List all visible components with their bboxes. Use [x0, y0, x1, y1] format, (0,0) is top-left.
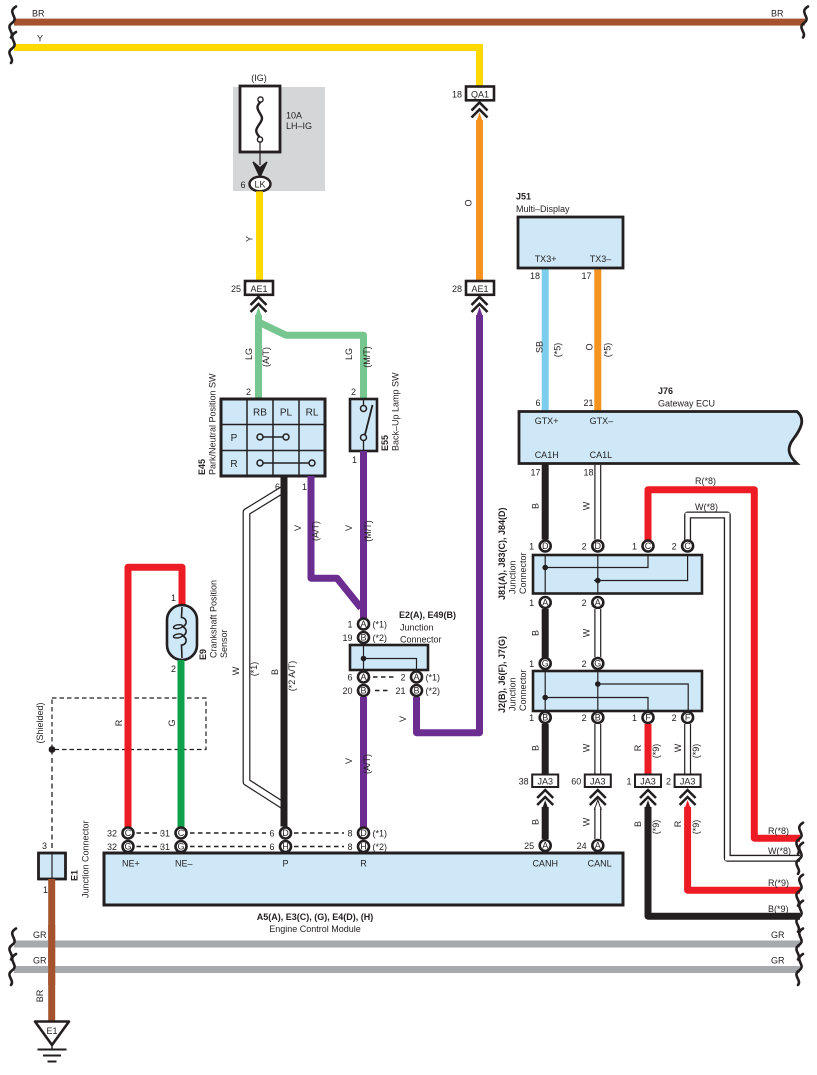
svg-text:LH–IG: LH–IG: [286, 121, 312, 131]
svg-text:BR: BR: [32, 9, 45, 19]
svg-text:Connector: Connector: [518, 552, 528, 594]
svg-text:Engine Control Module: Engine Control Module: [269, 924, 361, 934]
svg-text:(*9): (*9): [651, 820, 661, 835]
svg-text:JA3: JA3: [537, 777, 553, 787]
fuse 10A LH-IG box: [240, 86, 280, 152]
svg-text:(*2): (*2): [373, 842, 388, 852]
svg-text:W: W: [231, 666, 241, 675]
svg-text:RL: RL: [306, 408, 319, 419]
svg-text:O: O: [585, 343, 595, 350]
svg-text:E45: E45: [197, 459, 207, 475]
wire W CA1L to J81: [594, 465, 601, 540]
svg-text:J81(A), J83(C), J84(D): J81(A), J83(C), J84(D): [497, 507, 507, 600]
svg-text:W: W: [582, 743, 592, 752]
svg-text:V: V: [293, 525, 303, 531]
ground E1 symbol: [35, 1022, 69, 1046]
svg-text:R: R: [673, 820, 683, 827]
switch E55 Back-Up Lamp SW: [350, 399, 377, 451]
svg-text:2: 2: [400, 673, 405, 683]
svg-text:Junction Connector: Junction Connector: [81, 820, 91, 898]
svg-text:1: 1: [43, 885, 48, 895]
connector LK oval: [250, 177, 271, 192]
svg-text:1: 1: [347, 620, 352, 630]
svg-text:(*5): (*5): [603, 343, 613, 358]
chevron arrow into AE1-28: [476, 307, 483, 317]
svg-text:1: 1: [626, 777, 631, 787]
svg-text:C: C: [178, 828, 185, 838]
svg-text:LG: LG: [244, 348, 254, 360]
dashed shield drain wire to E1: [51, 750, 53, 854]
wire SB J51 to J76: [542, 270, 549, 411]
chevron arrow below JA3-38: [542, 800, 549, 810]
svg-text:32: 32: [107, 842, 117, 852]
svg-text:(*2): (*2): [373, 633, 388, 643]
svg-text:6: 6: [269, 829, 274, 839]
svg-text:A: A: [595, 841, 601, 851]
wire GR rail 1: [14, 941, 800, 948]
junction connector J2 circles top: [540, 658, 551, 669]
svg-text:(*1): (*1): [373, 829, 388, 839]
switch E45 Park/Neutral Position SW table: [221, 399, 325, 476]
svg-text:E55: E55: [380, 435, 390, 451]
svg-text:A: A: [542, 598, 548, 608]
ECM pin circle CANL 24A: [592, 840, 603, 851]
wire W J2-B2 to JA3-60: [594, 724, 601, 775]
wire O QA1 to AE1-28: [476, 120, 483, 281]
svg-text:R: R: [633, 744, 643, 751]
svg-text:R: R: [360, 859, 367, 869]
svg-text:Park/Neutral Position SW: Park/Neutral Position SW: [208, 373, 218, 475]
svg-text:2: 2: [582, 713, 587, 723]
svg-text:J2(B), J6(F), J7(G): J2(B), J6(F), J7(G): [497, 636, 507, 713]
svg-text:(A/T): (A/T): [311, 521, 321, 541]
svg-text:Connector: Connector: [400, 635, 442, 645]
wire R(*8) from J81 C1 to right edge: [648, 490, 800, 839]
svg-text:2: 2: [246, 387, 251, 397]
chevron arrow below JA3-2: [684, 800, 691, 810]
svg-text:3: 3: [42, 841, 47, 851]
break squiggle GR1 right: [796, 929, 803, 960]
wire GR rail 2: [14, 966, 800, 973]
shield junction dot: [49, 746, 56, 753]
svg-text:AE1: AE1: [471, 284, 488, 294]
chevron arrow below JA3-1: [645, 800, 652, 810]
svg-text:JA3: JA3: [680, 777, 696, 787]
svg-text:25: 25: [231, 284, 241, 294]
connector JA3-38: [532, 775, 558, 788]
svg-text:P: P: [282, 859, 288, 869]
junction connector J2 box: [533, 671, 702, 711]
wire W J2-F2 to JA3-2: [684, 724, 691, 775]
svg-text:D: D: [282, 828, 289, 838]
sensor E9 Crankshaft Position Sensor: [167, 605, 197, 660]
svg-text:1: 1: [302, 482, 307, 492]
svg-text:18: 18: [530, 271, 540, 281]
svg-text:RB: RB: [253, 408, 267, 419]
svg-text:24: 24: [577, 841, 587, 851]
svg-text:6: 6: [347, 673, 352, 683]
svg-text:Sensor: Sensor: [219, 629, 229, 658]
svg-text:C: C: [125, 828, 132, 838]
wire Y rail: [14, 44, 483, 51]
svg-text:PL: PL: [280, 408, 293, 419]
svg-text:F: F: [645, 713, 651, 723]
svg-text:1: 1: [171, 593, 176, 603]
svg-text:Back–Up Lamp SW: Back–Up Lamp SW: [391, 372, 401, 451]
svg-text:38: 38: [519, 777, 529, 787]
break squiggle GR1 left: [9, 929, 16, 960]
svg-text:Crankshaft Position: Crankshaft Position: [209, 580, 219, 658]
svg-text:W: W: [673, 743, 683, 752]
svg-text:2: 2: [666, 777, 671, 787]
svg-text:V: V: [398, 716, 408, 722]
wire B JA3-38 to ECM 25A: [542, 807, 549, 839]
wire B J2-B1 to JA3-38: [542, 724, 549, 775]
svg-text:B: B: [633, 821, 643, 827]
wire fuse to LK: [259, 142, 261, 165]
svg-text:B: B: [542, 713, 548, 723]
svg-text:19: 19: [342, 633, 352, 643]
svg-text:B: B: [531, 745, 541, 751]
svg-text:E1: E1: [70, 870, 80, 881]
wire BR rail (top): [14, 19, 805, 26]
ECM A5(A),E3(C),(G),E4(D),(H) Engine Control Module box: [104, 853, 623, 905]
wire R from ECM NE+ up to E9: [128, 567, 182, 826]
svg-text:JA3: JA3: [590, 777, 606, 787]
wire W(*1) outlined parallel run: [247, 489, 285, 806]
svg-text:R: R: [114, 719, 124, 726]
svg-text:Gateway ECU: Gateway ECU: [658, 399, 715, 409]
svg-text:20: 20: [342, 686, 352, 696]
wire R J2-F1 to JA3-1: [645, 724, 652, 775]
connector AE1-25 box: [245, 281, 273, 295]
svg-text:(*1): (*1): [426, 673, 441, 683]
svg-text:(A/T): (A/T): [261, 347, 271, 367]
svg-text:B: B: [360, 633, 366, 643]
svg-text:A: A: [360, 672, 366, 682]
svg-text:E1: E1: [46, 1026, 57, 1036]
svg-text:B: B: [531, 630, 541, 636]
svg-text:Junction: Junction: [400, 623, 434, 633]
svg-text:6: 6: [240, 180, 245, 190]
wire W(*8) from J81 C2 to right edge: [688, 515, 800, 858]
wire LG branch to E55: [259, 322, 364, 399]
wire B CA1H to J81: [542, 464, 549, 540]
svg-text:LK: LK: [254, 180, 265, 190]
break squiggle R(*9): [796, 875, 803, 906]
wire V below E2 to ECM pin R: [360, 697, 367, 827]
junction connector J81 circles top: [540, 541, 551, 552]
svg-text:18: 18: [583, 468, 593, 478]
svg-text:8: 8: [347, 829, 352, 839]
svg-text:R(*8): R(*8): [695, 476, 716, 486]
svg-text:1: 1: [529, 659, 534, 669]
svg-text:C: C: [684, 541, 691, 551]
svg-text:J76: J76: [658, 386, 673, 396]
arrowhead into LK: [254, 163, 267, 177]
svg-text:B: B: [360, 686, 366, 696]
svg-text:10A: 10A: [286, 111, 302, 121]
svg-text:BR: BR: [771, 9, 784, 19]
svg-text:BR: BR: [35, 989, 45, 1002]
svg-text:28: 28: [452, 284, 462, 294]
wire V from E55 pin1: [360, 451, 367, 618]
svg-text:21: 21: [583, 398, 593, 408]
svg-text:E2(A), E49(B): E2(A), E49(B): [399, 610, 456, 620]
wire BR from E1 to ground: [48, 879, 55, 1022]
svg-text:17: 17: [581, 271, 591, 281]
ECM pin circles P: [280, 828, 291, 839]
svg-text:D: D: [542, 541, 549, 551]
svg-text:G: G: [124, 842, 131, 852]
break squiggle GR2 left: [9, 954, 16, 985]
svg-text:CA1H: CA1H: [535, 450, 559, 460]
svg-text:B: B: [531, 503, 541, 509]
wire G from E9 to ECM NE-: [178, 660, 185, 827]
wire B from E45 pin6 to ECM: [281, 476, 288, 827]
ECM pin circles NE-: [178, 820, 185, 827]
svg-text:B: B: [270, 669, 280, 675]
ECM pin circles R: [360, 820, 367, 827]
svg-text:(M/T): (M/T): [362, 346, 372, 368]
dashed links between ECM pin circles: [137, 832, 162, 834]
svg-text:Connector: Connector: [518, 669, 528, 711]
svg-text:R: R: [230, 459, 237, 470]
svg-text:A: A: [542, 841, 548, 851]
svg-text:G: G: [542, 659, 549, 669]
svg-text:E9: E9: [198, 649, 208, 660]
svg-text:31: 31: [160, 842, 170, 852]
svg-text:(*2 A/T): (*2 A/T): [287, 661, 297, 692]
break squiggle BR right: [801, 7, 808, 38]
svg-text:AE1: AE1: [250, 284, 267, 294]
svg-text:17: 17: [530, 468, 540, 478]
svg-text:G: G: [167, 719, 177, 726]
ECM pin circle CANH 25A: [540, 840, 551, 851]
svg-text:2: 2: [171, 664, 176, 674]
svg-text:H: H: [360, 842, 367, 852]
svg-text:LG: LG: [344, 348, 354, 360]
wire Y drop to QA1: [476, 44, 483, 86]
svg-text:CA1L: CA1L: [590, 450, 613, 460]
svg-text:A: A: [413, 672, 419, 682]
fuse block background (IG): [233, 87, 325, 191]
svg-text:21: 21: [395, 686, 405, 696]
break squiggle B(*9): [796, 901, 803, 932]
svg-text:2: 2: [672, 542, 677, 552]
wire BR crossing over GR rails: [48, 925, 55, 985]
svg-text:60: 60: [571, 777, 581, 787]
svg-text:8: 8: [347, 842, 352, 852]
svg-text:GTX–: GTX–: [590, 416, 614, 426]
break squiggle GR2 right: [796, 954, 803, 985]
svg-text:V: V: [344, 758, 354, 764]
connector AE1-28 box: [466, 281, 494, 295]
wire W J81 to J2: [594, 609, 601, 657]
svg-text:A: A: [360, 619, 366, 629]
svg-text:(IG): (IG): [251, 73, 267, 83]
svg-text:CANL: CANL: [588, 859, 612, 869]
connector JA3-2: [675, 775, 701, 788]
svg-text:SB: SB: [535, 341, 545, 353]
junction connector E2(A),E49(B) circles above: [358, 619, 369, 630]
svg-text:(Shielded): (Shielded): [35, 702, 45, 743]
shield dashed box: [52, 698, 206, 750]
svg-text:W: W: [582, 628, 592, 637]
junction connector J2 circles bottom: [540, 712, 551, 723]
svg-text:25: 25: [524, 841, 534, 851]
break squiggle R(*8): [796, 823, 803, 854]
svg-text:JA3: JA3: [640, 777, 656, 787]
svg-text:QA1: QA1: [471, 89, 489, 99]
connector JA3-1: [635, 775, 661, 788]
svg-text:NE+: NE+: [122, 859, 140, 869]
svg-text:(M/T): (M/T): [363, 520, 373, 542]
svg-text:(A/T): (A/T): [362, 754, 372, 774]
svg-text:Y: Y: [37, 34, 43, 44]
wire V from E45 pin1 RL: [311, 476, 361, 608]
svg-text:C: C: [645, 541, 652, 551]
svg-text:GR: GR: [771, 930, 785, 940]
svg-text:O: O: [464, 199, 474, 206]
svg-text:6: 6: [535, 398, 540, 408]
break squiggle Y left: [9, 32, 16, 63]
svg-text:G: G: [177, 842, 184, 852]
svg-text:1: 1: [529, 598, 534, 608]
break squiggle W(*8): [796, 843, 803, 874]
wire Y fuse to AE1-25: [256, 191, 263, 281]
svg-text:F: F: [685, 713, 691, 723]
svg-text:(*1): (*1): [249, 662, 259, 677]
svg-text:W: W: [582, 501, 592, 510]
svg-text:(*9): (*9): [651, 744, 661, 759]
svg-text:A: A: [595, 598, 601, 608]
svg-text:W: W: [582, 817, 592, 826]
wire LG AE1-25 to E45 pin2: [255, 315, 262, 399]
svg-text:(*9): (*9): [691, 820, 701, 835]
break squiggle BR left: [9, 7, 16, 38]
wire B J81 to J2: [542, 609, 549, 658]
svg-text:B: B: [413, 686, 419, 696]
wire R(*9) JA3-2 to right edge: [688, 807, 800, 890]
svg-text:2: 2: [582, 598, 587, 608]
svg-text:2: 2: [582, 542, 587, 552]
svg-text:A5(A), E3(C), (G), E4(D), (H): A5(A), E3(C), (G), E4(D), (H): [257, 912, 374, 922]
wire O J51 to J76: [594, 270, 601, 411]
chevron arrow into QA1: [476, 113, 483, 123]
svg-text:Multi–Display: Multi–Display: [516, 204, 570, 214]
svg-text:G: G: [594, 659, 601, 669]
wire V from AE1-28 down and to B21: [417, 315, 480, 733]
junction connector E1 box: [39, 853, 66, 879]
svg-text:Junction: Junction: [508, 560, 518, 594]
connector JA3-60: [585, 775, 611, 788]
svg-text:(*9): (*9): [691, 744, 701, 759]
svg-text:P: P: [231, 433, 238, 444]
svg-text:1: 1: [352, 455, 357, 465]
svg-text:2: 2: [351, 387, 356, 397]
junction connector E2 box: [350, 645, 428, 670]
coil inside E9: [182, 607, 187, 658]
svg-text:GTX+: GTX+: [535, 416, 559, 426]
svg-text:TX3+: TX3+: [535, 254, 557, 264]
svg-text:(*1): (*1): [373, 620, 388, 630]
svg-text:1: 1: [632, 713, 637, 723]
junction connector J81 circles bottom: [540, 597, 551, 608]
svg-text:J51: J51: [516, 192, 531, 202]
svg-text:D: D: [595, 541, 602, 551]
chevron arrow below JA3-60: [595, 800, 602, 810]
junction connector E2 circles below: [358, 672, 369, 683]
svg-text:R(*8): R(*8): [768, 826, 789, 836]
svg-text:CANH: CANH: [532, 859, 558, 869]
svg-text:1: 1: [529, 542, 534, 552]
svg-text:D: D: [360, 828, 367, 838]
wire B(*9) JA3-1 to right edge: [648, 807, 800, 916]
svg-text:H: H: [282, 842, 289, 852]
svg-text:2: 2: [582, 659, 587, 669]
svg-text:2: 2: [672, 713, 677, 723]
ECM pin circles NE+: [125, 820, 132, 827]
chevron arrow into AE1-25: [255, 307, 262, 317]
svg-text:GR: GR: [771, 956, 785, 966]
svg-text:B: B: [531, 819, 541, 825]
svg-text:B(*9): B(*9): [768, 904, 789, 914]
svg-text:R(*9): R(*9): [768, 878, 789, 888]
svg-text:GR: GR: [33, 930, 47, 940]
svg-text:(*5): (*5): [553, 343, 563, 358]
svg-text:1: 1: [529, 713, 534, 723]
svg-text:1: 1: [632, 542, 637, 552]
svg-text:GR: GR: [33, 956, 47, 966]
svg-text:NE–: NE–: [175, 859, 193, 869]
svg-text:TX3–: TX3–: [590, 254, 612, 264]
connector QA1 box: [466, 87, 494, 101]
svg-text:Junction: Junction: [508, 677, 518, 711]
svg-text:32: 32: [107, 829, 117, 839]
svg-text:31: 31: [160, 829, 170, 839]
svg-text:Y: Y: [245, 236, 255, 242]
svg-text:6: 6: [269, 842, 274, 852]
svg-text:B: B: [595, 713, 601, 723]
svg-text:V: V: [344, 525, 354, 531]
fuse element: [258, 97, 263, 102]
svg-text:(*2): (*2): [426, 686, 441, 696]
svg-text:18: 18: [452, 90, 462, 100]
wire W JA3-60 to ECM 24A: [594, 807, 601, 839]
svg-text:W(*8): W(*8): [768, 846, 791, 856]
svg-text:W(*8): W(*8): [695, 502, 718, 512]
junction connector J81 box: [533, 555, 702, 594]
